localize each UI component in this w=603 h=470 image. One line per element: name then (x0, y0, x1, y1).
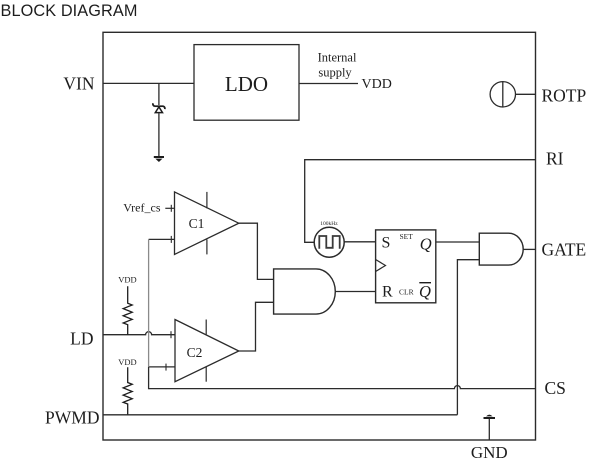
svg-text:GND: GND (471, 443, 508, 462)
wire CS to comparator inputs (gray vertical) (148, 239, 150, 389)
comparator C2 (166, 320, 239, 382)
svg-text:R: R (382, 284, 393, 301)
wire LD with hop (103, 332, 175, 335)
svg-text:C1: C1 (189, 216, 205, 231)
ground GND pin (484, 415, 496, 440)
and gate A1 (274, 269, 336, 314)
svg-text:VIN: VIN (63, 74, 94, 94)
LDO block U1 (194, 45, 299, 121)
wire Q output to AND2 (436, 241, 480, 243)
wire C2 output to AND1 (239, 302, 274, 351)
svg-text:SET: SET (400, 232, 414, 241)
outer box (103, 32, 536, 440)
wire GATE output (523, 248, 535, 250)
svg-text:CS: CS (545, 378, 566, 398)
SR latch U2 (376, 230, 436, 303)
svg-text:CLR: CLR (399, 287, 414, 296)
svg-text:PWMD: PWMD (45, 408, 99, 428)
svg-text:Internal: Internal (318, 51, 357, 65)
wire CS with hop (149, 386, 536, 389)
svg-text:Q: Q (420, 234, 432, 253)
svg-text:VDD: VDD (362, 77, 392, 92)
wire PWMD to AND2 input (457, 260, 479, 415)
svg-text:VDD: VDD (118, 275, 136, 285)
svg-text:LD: LD (70, 329, 93, 349)
wire RI (305, 160, 536, 243)
wire LDO output (299, 83, 358, 85)
svg-text:BLOCK DIAGRAM: BLOCK DIAGRAM (1, 2, 138, 20)
svg-text:Vref_cs: Vref_cs (123, 201, 161, 215)
svg-text:VDD: VDD (118, 357, 136, 367)
wire oscillator to S input (344, 241, 375, 243)
resistor R1 (118, 275, 136, 335)
ground (under zener) (154, 157, 164, 162)
wire C1 inverting input (149, 238, 175, 240)
svg-text:supply: supply (318, 66, 352, 80)
label Internal supply (318, 51, 357, 80)
wire C2 inverting input (149, 366, 175, 368)
svg-text:RI: RI (546, 149, 564, 169)
svg-text:100kHz: 100kHz (320, 221, 338, 227)
wire PWMD (103, 414, 457, 416)
svg-text:LDO: LDO (225, 72, 268, 96)
svg-text:Q: Q (419, 282, 431, 301)
svg-text:C2: C2 (187, 345, 203, 360)
svg-text:GATE: GATE (542, 240, 587, 260)
svg-text:S: S (382, 235, 391, 252)
wire A1 output to R input (335, 291, 375, 293)
resistor R2 (118, 357, 136, 415)
wire VIN (103, 82, 194, 84)
wire Vref_cs input (165, 207, 174, 209)
svg-text:ROTP: ROTP (542, 86, 587, 106)
zener diode D1 (153, 83, 165, 156)
oscillator 100kHz (314, 221, 344, 257)
comparator C1 (171, 192, 239, 255)
wire C1 output to AND1 (239, 223, 274, 279)
current source ROTP (490, 82, 535, 107)
and gate A2 (479, 233, 523, 265)
